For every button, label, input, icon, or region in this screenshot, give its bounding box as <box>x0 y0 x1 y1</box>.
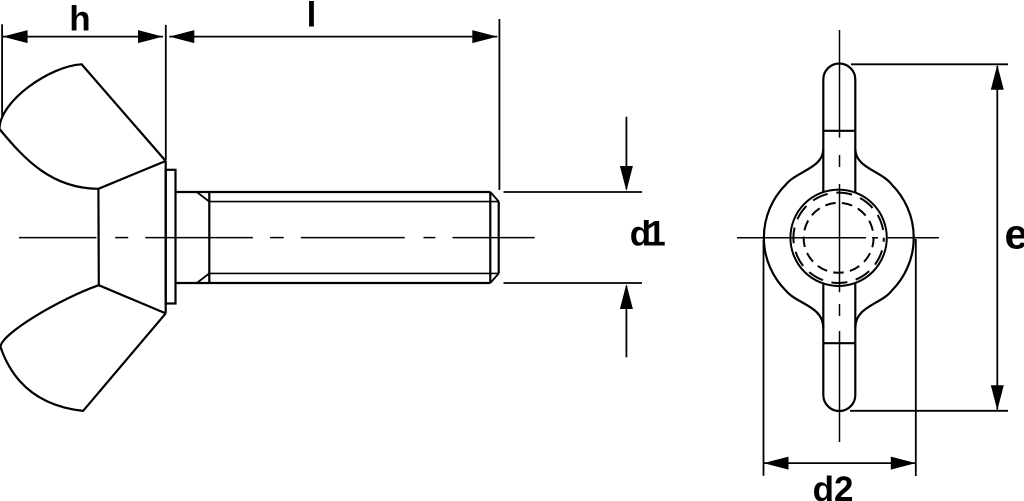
svg-text:1: 1 <box>646 214 665 253</box>
svg-text:h: h <box>69 0 90 38</box>
svg-text:d2: d2 <box>813 470 854 501</box>
svg-text:e: e <box>1005 210 1024 257</box>
svg-text:l: l <box>307 0 317 34</box>
